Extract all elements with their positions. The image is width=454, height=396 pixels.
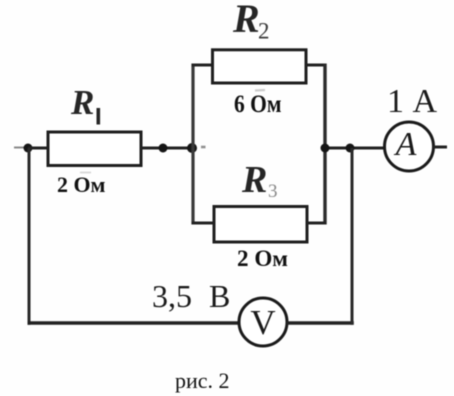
svg-text:2: 2 bbox=[258, 19, 270, 44]
wire top branch right bbox=[306, 64, 327, 67]
resistor R1 bbox=[48, 132, 141, 166]
wire left stub bbox=[14, 147, 28, 149]
svg-text:рис. 2: рис. 2 bbox=[175, 368, 230, 393]
wire R1 to parallel section bbox=[141, 147, 194, 150]
svg-text:2 Ом: 2 Ом bbox=[237, 246, 288, 271]
voltmeter U-V bbox=[239, 298, 287, 346]
wire ammeter right stub bbox=[433, 146, 447, 149]
svg-text:R: R bbox=[232, 0, 260, 41]
ammeter U-A bbox=[385, 122, 434, 171]
wire left vertical (voltmeter loop) bbox=[28, 148, 31, 325]
label R1 bbox=[70, 83, 100, 125]
node junction parallel-right bbox=[321, 144, 330, 153]
svg-text:R: R bbox=[70, 83, 94, 122]
wire bottom branch right bbox=[307, 222, 327, 225]
wire main to ammeter bbox=[325, 147, 385, 150]
svg-text:3: 3 bbox=[268, 181, 278, 202]
artifact smudge above 6 Ом bbox=[255, 89, 265, 92]
svg-text:A: A bbox=[394, 126, 417, 163]
wire parallel left vertical bbox=[191, 64, 194, 225]
artifact smudge above 2 Ом (R1) bbox=[80, 172, 91, 174]
wire bottom branch left bbox=[192, 222, 215, 225]
label R2 bbox=[232, 0, 270, 44]
artifact tick right of node bbox=[201, 146, 206, 149]
svg-text:R: R bbox=[241, 159, 267, 201]
wire left to R1 bbox=[28, 147, 48, 150]
wire top branch left bbox=[192, 64, 214, 67]
svg-text:6 Ом: 6 Ом bbox=[234, 91, 282, 118]
svg-text:3,5: 3,5 bbox=[152, 278, 192, 314]
label R3 bbox=[241, 159, 278, 202]
wire bottom right bbox=[286, 321, 354, 325]
wire right vertical (voltmeter loop) bbox=[351, 148, 354, 325]
node junction voltmeter-branch bbox=[346, 144, 355, 153]
node junction parallel-left bbox=[187, 143, 197, 153]
node junction left bbox=[24, 144, 33, 153]
resistor R2 bbox=[213, 50, 307, 83]
svg-text:В: В bbox=[209, 278, 230, 314]
svg-text:2 Ом: 2 Ом bbox=[57, 172, 106, 197]
wire bottom left bbox=[28, 321, 241, 325]
wire parallel right vertical bbox=[323, 64, 326, 225]
svg-text:1 А: 1 А bbox=[387, 83, 438, 120]
resistor R3 bbox=[214, 207, 307, 243]
node junction mid bbox=[159, 144, 168, 153]
svg-text:V: V bbox=[250, 303, 275, 342]
